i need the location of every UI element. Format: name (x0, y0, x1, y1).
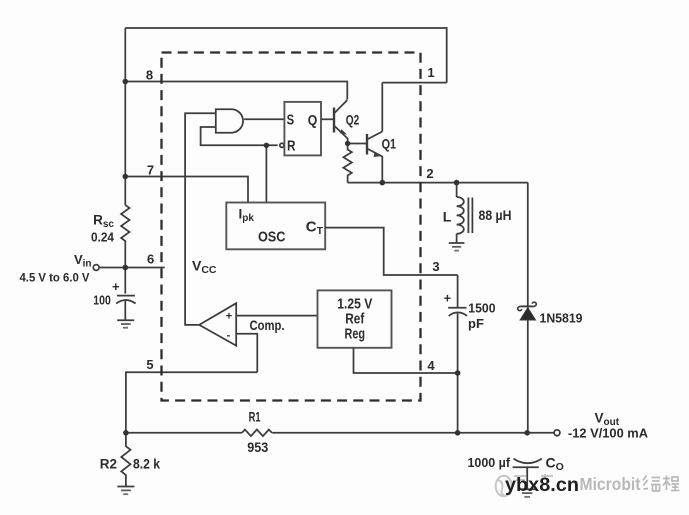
wire AND bottom input to R (201, 127, 278, 145)
svg-text:1N5819: 1N5819 (540, 310, 583, 325)
wire inductor lead (456, 183, 458, 197)
svg-text:S: S (287, 113, 295, 129)
wire comp - input (236, 334, 257, 373)
ground under Co (518, 488, 536, 490)
capacitor 100 (117, 295, 135, 297)
svg-text:4.5 V to 6.0 V: 4.5 V to 6.0 V (20, 273, 90, 285)
svg-text:pF: pF (468, 316, 484, 331)
wire pin 5 (126, 372, 257, 433)
wire pin3 down to cap (457, 275, 459, 308)
wire cap100 lead (124, 268, 126, 294)
wire R node to OSC (265, 145, 267, 202)
terminal Vin (93, 265, 99, 271)
latch box (284, 102, 321, 155)
svg-text:5: 5 (146, 357, 153, 372)
wire left rail top (124, 28, 126, 205)
node R latch (264, 143, 269, 148)
pin number labels (146, 65, 440, 373)
svg-text:8: 8 (146, 68, 153, 83)
wire AND output to S (244, 118, 284, 120)
node Co rail (524, 430, 530, 436)
wire pin1 lead (382, 82, 446, 84)
wire Q1 collector rail (381, 83, 383, 132)
wire outer top loop (125, 28, 446, 83)
wire CT output to pin 3 (325, 228, 457, 275)
wire inductor bottom lead (456, 234, 458, 243)
wire R1 rail (126, 432, 242, 434)
transistor Q1 (366, 134, 368, 155)
transistor Q1 emitter arrow (374, 152, 382, 157)
ground under L (449, 242, 465, 244)
svg-text:Rsc: Rsc (93, 213, 114, 231)
wire pin 4 (354, 348, 458, 373)
Ref Reg box (318, 290, 392, 347)
wire comparator out to AND top input (185, 113, 216, 325)
inductor core bars (467, 198, 469, 234)
svg-text:R2: R2 (100, 456, 117, 471)
IC dashed box (162, 53, 421, 401)
AND gate U2 (216, 109, 243, 133)
svg-text:1000 µf: 1000 µf (468, 455, 511, 470)
svg-text:1500: 1500 (468, 300, 495, 315)
svg-text:Q2: Q2 (346, 112, 360, 127)
wire pin 8 (125, 82, 347, 100)
svg-text:2: 2 (426, 166, 433, 181)
svg-text:-: - (227, 329, 231, 341)
wire pin 2 (348, 182, 528, 184)
OSC box (226, 203, 325, 250)
watermark CJK 编程 strokes (643, 476, 680, 492)
wire comp + input (236, 315, 317, 317)
svg-text:8.2 k: 8.2 k (133, 457, 160, 472)
resistor R1 953 (242, 430, 272, 437)
svg-text:0.24: 0.24 (91, 231, 114, 245)
svg-text:6: 6 (147, 252, 154, 267)
svg-text:Vin: Vin (74, 252, 92, 270)
svg-text:CT: CT (306, 218, 324, 237)
svg-text:VCC: VCC (192, 258, 217, 277)
svg-text:Ipk: Ipk (239, 206, 255, 224)
svg-text:+: + (226, 310, 232, 322)
transistor Q2 emitter arrow (340, 129, 347, 134)
node pin6 (123, 265, 129, 271)
svg-text:-12 V/100 mA: -12 V/100 mA (568, 426, 649, 441)
ground under 100 cap (117, 319, 134, 321)
capacitor Co (514, 459, 542, 464)
node pin4 rail (455, 430, 461, 436)
capacitor 1500 pF (448, 307, 466, 309)
terminal Vout (554, 430, 560, 436)
wire Q to Q2 base (321, 118, 334, 120)
svg-text:Q: Q (308, 113, 318, 129)
node pin7 (123, 174, 129, 180)
resistor Rsc (121, 205, 129, 268)
svg-text:Q1: Q1 (382, 136, 397, 151)
svg-text:+: + (112, 279, 120, 294)
svg-text:CO: CO (546, 454, 564, 473)
resistor R2 (121, 433, 130, 486)
node pin8 (123, 79, 129, 85)
node R1 R2 (123, 430, 129, 436)
watermark logo swirl (496, 476, 512, 496)
wire pin 6 (99, 267, 165, 269)
resistor under Q2 emitter (343, 144, 351, 183)
svg-text:OSC: OSC (258, 229, 286, 246)
svg-text:Comp.: Comp. (250, 318, 285, 333)
svg-text:L: L (443, 209, 452, 225)
node Q1 emitter (380, 180, 386, 186)
transistor Q2 (333, 108, 335, 133)
svg-text:88 µH: 88 µH (479, 208, 512, 223)
svg-text:R1: R1 (249, 408, 261, 424)
svg-text:100: 100 (93, 294, 111, 308)
svg-text:4: 4 (427, 358, 435, 373)
wire pin 7 (125, 177, 248, 203)
node L top (454, 180, 460, 186)
wire output rail (527, 183, 529, 433)
wire Q2 emitter to Q1 base (348, 143, 367, 145)
node pin4 (455, 370, 461, 376)
svg-text:Reg: Reg (345, 326, 366, 343)
svg-text:R: R (287, 139, 296, 155)
svg-text:7: 7 (147, 163, 154, 178)
svg-text:1: 1 (427, 65, 434, 80)
svg-text:+: + (444, 292, 451, 306)
comparator U1 (199, 303, 236, 345)
diode 1N5819 (520, 305, 534, 307)
svg-text:3: 3 (432, 259, 439, 274)
R inversion bubble (280, 143, 284, 147)
svg-text:953: 953 (247, 439, 268, 455)
svg-text:ybx8.cn: ybx8.cn (505, 474, 579, 496)
ground under R2 (117, 486, 134, 488)
watermark gray CJK strokes left (514, 474, 553, 480)
svg-text:Microbit: Microbit (580, 474, 641, 494)
node Q2 emitter (345, 141, 350, 146)
inductor L coil (457, 197, 464, 234)
